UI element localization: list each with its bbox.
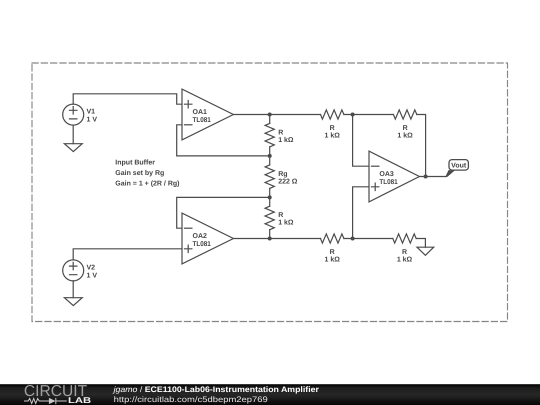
V1 label xyxy=(87,109,98,124)
svg-text:http://circuitlab.com/c5dbepm2: http://circuitlab.com/c5dbepm2ep769 xyxy=(114,395,269,404)
svg-text:OA1: OA1 xyxy=(193,109,208,116)
svg-text:R: R xyxy=(330,125,335,132)
node C junction xyxy=(268,195,272,199)
svg-text:1 kΩ: 1 kΩ xyxy=(278,219,294,227)
svg-text:OA3: OA3 xyxy=(379,171,394,178)
wire OA2 output to node D xyxy=(233,238,269,240)
bottom-left R label xyxy=(325,249,341,264)
svg-text:Input Buffer: Input Buffer xyxy=(115,159,155,167)
svg-text:TL081: TL081 xyxy=(193,117,211,124)
wire node C down xyxy=(269,197,271,206)
resistor R 1k (bottom right to ground) xyxy=(393,234,416,243)
wire to node D xyxy=(269,230,271,239)
svg-text:R: R xyxy=(402,249,407,256)
node D junction xyxy=(268,237,272,241)
wire V2 bottom to ground xyxy=(72,281,74,298)
svg-text:222 Ω: 222 Ω xyxy=(278,178,298,185)
svg-text:TL081: TL081 xyxy=(379,179,397,186)
node F junction xyxy=(351,113,355,117)
wire OA2 feedback (node C to - input) xyxy=(177,197,270,228)
wire V1 bottom to ground xyxy=(72,125,74,144)
svg-text:V1: V1 xyxy=(87,109,96,116)
top-right R label xyxy=(397,125,413,140)
node A junction xyxy=(268,113,272,117)
op-amp OA2 xyxy=(182,213,233,264)
wire OA3 output to Vout xyxy=(419,176,445,178)
svg-text:Gain set by Rg: Gain set by Rg xyxy=(115,169,164,177)
Vout flag tail xyxy=(445,170,455,177)
wire node D to resistor (bottom left) xyxy=(270,238,321,240)
svg-text:1 kΩ: 1 kΩ xyxy=(397,132,413,140)
svg-text:OA2: OA2 xyxy=(193,233,208,240)
svg-text:Vout: Vout xyxy=(451,162,467,169)
Vout flag text xyxy=(451,162,467,169)
wire to node C xyxy=(269,188,271,197)
wire node A to resistor R top-left xyxy=(270,114,321,116)
wire node A down xyxy=(269,115,271,124)
wire to node B xyxy=(269,147,271,156)
wire to node E xyxy=(344,238,393,240)
svg-text:V2: V2 xyxy=(87,264,96,271)
node E junction xyxy=(351,237,355,241)
svg-text:1 V: 1 V xyxy=(87,272,98,279)
resistor Rg 222 ohm xyxy=(265,165,274,189)
resistor R 1k (top left horizontal) xyxy=(321,110,344,119)
Rg label xyxy=(278,171,298,186)
resistor R (1 k, top of chain) xyxy=(265,123,274,146)
svg-text:Gain = 1 + (2R / Rg): Gain = 1 + (2R / Rg) xyxy=(115,180,179,188)
top-left R label xyxy=(325,125,341,140)
voltage source V2 xyxy=(63,260,84,281)
wire resistor to ground stem xyxy=(416,239,425,248)
schematic dashed border xyxy=(32,63,508,322)
svg-text:1 V: 1 V xyxy=(87,117,98,124)
ground below V1 xyxy=(64,144,82,152)
svg-text:R: R xyxy=(330,249,335,256)
wire node F down to OA3 - input xyxy=(353,115,369,167)
wire node E up to OA3 + input xyxy=(353,187,369,239)
svg-text:jgamo / ECE1100-Lab06-Instrume: jgamo / ECE1100-Lab06-Instrumentation Am… xyxy=(113,385,319,394)
node B junction xyxy=(268,154,272,158)
ground bottom right xyxy=(417,247,434,255)
resistor R 1k (top right feedback) xyxy=(393,110,416,119)
resistor R (1 k, bottom of chain) xyxy=(265,206,274,230)
node G junction xyxy=(424,175,428,179)
svg-text:1 kΩ: 1 kΩ xyxy=(325,132,341,140)
R chain bottom label xyxy=(278,212,294,227)
svg-text:R: R xyxy=(278,129,283,136)
op-amp OA3 xyxy=(369,151,419,202)
op-amp OA1 xyxy=(182,89,233,140)
OA3 labels xyxy=(379,171,397,186)
svg-text:1 kΩ: 1 kΩ xyxy=(397,256,413,264)
voltage source V1 xyxy=(63,104,84,125)
svg-text:TL081: TL081 xyxy=(193,241,211,248)
logo resistor-diode squiggle xyxy=(24,398,67,404)
OA1 labels xyxy=(193,109,211,124)
wire OA1 output to node A xyxy=(233,114,269,116)
svg-text:LAB: LAB xyxy=(68,395,91,405)
svg-text:1 kΩ: 1 kΩ xyxy=(325,256,341,264)
ground below V2 xyxy=(64,298,82,306)
bottom-right R label xyxy=(397,249,413,264)
svg-text:Rg: Rg xyxy=(278,171,287,178)
svg-text:1 kΩ: 1 kΩ xyxy=(278,136,294,144)
wire node B down xyxy=(269,156,271,165)
Vout flag xyxy=(449,160,468,171)
annotation text xyxy=(115,159,179,188)
wire V1 top to OA1 + input xyxy=(73,94,182,104)
wire V2 top to OA2 + input xyxy=(73,249,182,260)
resistor R 1k (bottom left horizontal) xyxy=(321,234,344,243)
svg-text:R: R xyxy=(278,212,283,219)
wire feedback corner down to node G xyxy=(417,115,426,177)
wire OA1 feedback (node B to - input) xyxy=(177,125,270,156)
OA2 labels xyxy=(193,233,211,248)
wire to node F xyxy=(344,114,394,116)
svg-text:R: R xyxy=(403,125,408,132)
footer black bar xyxy=(0,384,540,405)
V2 label xyxy=(87,264,98,279)
R chain top label xyxy=(278,129,294,144)
